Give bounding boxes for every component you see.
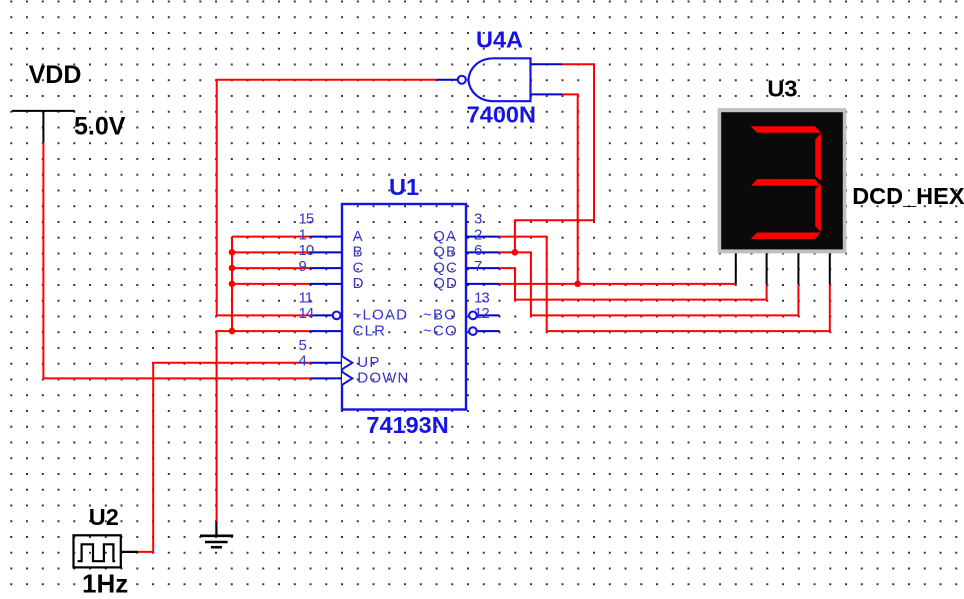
svg-text:13: 13	[474, 289, 489, 306]
svg-text:QD: QD	[433, 275, 458, 292]
svg-text:QB: QB	[433, 244, 457, 261]
svg-text:2: 2	[474, 226, 482, 243]
svg-text:74193N: 74193N	[366, 412, 448, 438]
svg-text:U2: U2	[89, 504, 119, 530]
wire QB junction to display pin B	[515, 252, 799, 315]
svg-text:DOWN: DOWN	[357, 370, 409, 387]
wire U2 output to U1 UP pin	[138, 363, 310, 552]
svg-text:1Hz: 1Hz	[82, 569, 128, 599]
clock triangle on UP pin	[342, 356, 352, 369]
segment b (top right)	[815, 133, 821, 180]
svg-text:10: 10	[299, 242, 314, 259]
pin B stub	[309, 251, 342, 253]
wire QA pin to display pin D	[499, 237, 830, 332]
counter U1 74193N body	[342, 174, 466, 438]
svg-text:4: 4	[299, 352, 307, 369]
clock source U2 1Hz (box, waveform, output stub, labels)	[74, 504, 139, 599]
segment g (middle)	[751, 179, 820, 186]
pin QB stub	[466, 251, 499, 253]
display lead pin A	[735, 253, 737, 283]
svg-text:CLR: CLR	[353, 322, 387, 339]
svg-text:B: B	[353, 244, 364, 261]
junction at pin D row	[229, 281, 236, 288]
pin D stub	[309, 283, 342, 285]
power VDD source V1 (bar, stem, labels VDD and 5.0V)	[12, 61, 126, 143]
pin QD stub	[466, 283, 499, 285]
pin A stub	[309, 236, 342, 238]
pin UP stub	[311, 362, 343, 364]
wire ground up to CLR row and to CLR pin	[217, 331, 310, 521]
svg-text:1: 1	[299, 226, 307, 243]
svg-text:3: 3	[474, 211, 482, 228]
svg-text:14: 14	[299, 305, 314, 322]
svg-text:C: C	[353, 259, 365, 276]
clock triangle on DOWN pin	[342, 372, 352, 385]
svg-text:U3: U3	[767, 76, 797, 102]
svg-text:~BO: ~BO	[423, 307, 457, 324]
svg-text:D: D	[353, 275, 365, 292]
wire QC pin to display pin C	[499, 268, 766, 300]
svg-text:A: A	[353, 228, 364, 245]
wire to pin D	[232, 283, 309, 285]
U1 pin number labels (15 1 10 9 11 14 5 4 / 3 2 6 7 13 12)	[299, 211, 490, 370]
wire U4A output to ~LOAD pin	[217, 80, 437, 316]
svg-text:6: 6	[474, 242, 482, 259]
segment a (top)	[751, 126, 821, 133]
display lead pin B	[766, 253, 768, 284]
bubble on ~CO pin	[469, 327, 477, 335]
svg-text:9: 9	[299, 258, 307, 275]
bubble on ~BO pin	[469, 312, 477, 320]
pin QC stub	[466, 267, 499, 269]
pin DOWN stub	[311, 377, 343, 379]
U1 pin name labels	[353, 228, 459, 387]
wire to pin A	[232, 236, 309, 238]
bubble on ~LOAD pin	[333, 312, 341, 320]
junction at QB	[512, 249, 519, 256]
wire A-B-C-D tie bus vertical	[231, 237, 233, 332]
ground symbol	[200, 522, 233, 548]
svg-text:QC: QC	[433, 259, 458, 276]
junction at CLR row	[229, 328, 236, 335]
svg-text:QA: QA	[433, 228, 457, 245]
svg-text:U1: U1	[389, 174, 419, 200]
junction at QD	[574, 281, 581, 288]
wire QB net to U4A top input	[515, 64, 594, 252]
segment c (bottom right)	[815, 184, 821, 232]
pin ~BO stub	[477, 314, 500, 316]
svg-text:U4A: U4A	[476, 26, 523, 52]
svg-text:12: 12	[474, 305, 489, 322]
svg-text:DCD_HEX: DCD_HEX	[852, 183, 964, 209]
junction at pin B row	[229, 249, 236, 256]
svg-text:VDD: VDD	[29, 61, 82, 89]
svg-text:7: 7	[474, 258, 482, 275]
pin QA stub	[466, 236, 499, 238]
pin C stub	[309, 267, 342, 269]
svg-text:15: 15	[299, 211, 314, 228]
svg-text:5: 5	[299, 337, 307, 354]
svg-text:11: 11	[299, 289, 313, 306]
wire VDD to U1 DOWN pin	[43, 143, 310, 379]
svg-text:7400N: 7400N	[467, 102, 536, 128]
seven segment display U3 DCD_HEX	[718, 76, 964, 285]
segment d (bottom)	[751, 233, 821, 240]
wire QB pin to junction	[499, 251, 515, 253]
pin ~LOAD stub	[311, 314, 333, 316]
svg-text:UP: UP	[357, 354, 380, 371]
pin CLR stub	[309, 330, 342, 332]
svg-text:~LOAD: ~LOAD	[353, 307, 409, 324]
display lead pin C	[797, 253, 799, 284]
wire to pin B	[232, 251, 309, 253]
wire QD pin to display pin A	[499, 283, 736, 285]
svg-text:~CO: ~CO	[423, 322, 458, 339]
wire to pin C	[232, 267, 309, 269]
junction at pin C row	[229, 265, 236, 272]
pin ~CO stub	[477, 330, 500, 332]
wire U4A bottom input down to QD row	[562, 94, 578, 283]
display lead pin D	[829, 253, 831, 284]
NAND gate U4A 7400N (mirrored, bubble on left output)	[437, 26, 562, 127]
svg-text:5.0V: 5.0V	[74, 112, 126, 140]
